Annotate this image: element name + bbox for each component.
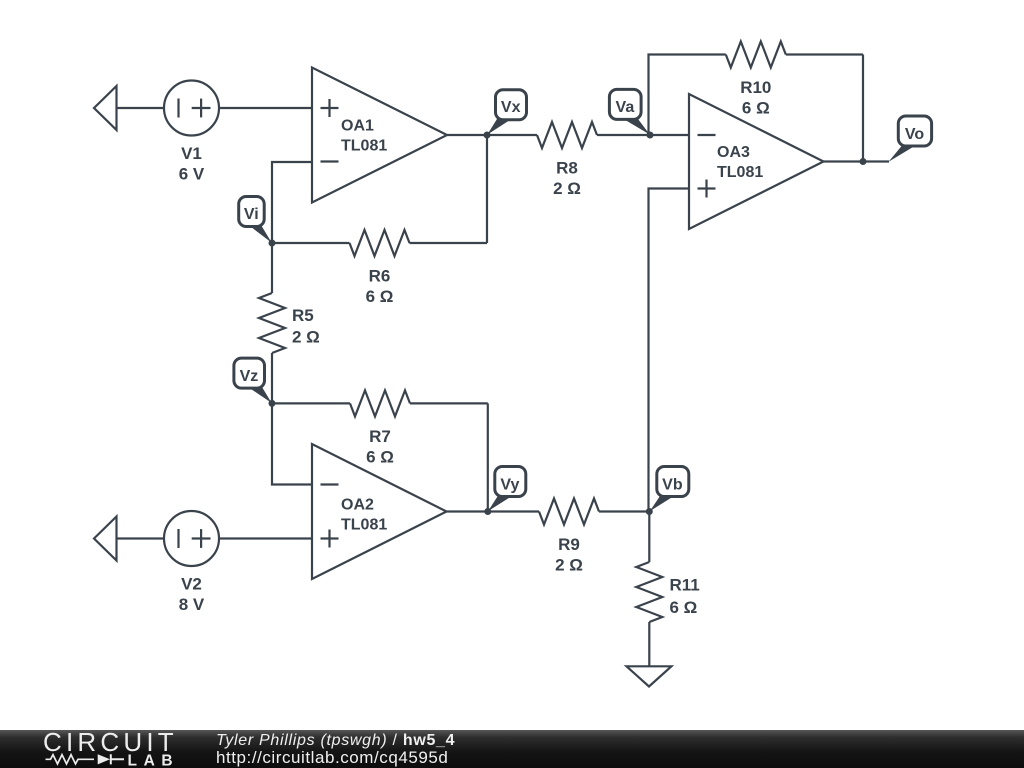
node Vi junction dot — [269, 240, 276, 247]
svg-text:R8: R8 — [556, 159, 578, 178]
node flag Vy — [488, 467, 526, 512]
svg-text:TL081: TL081 — [341, 138, 387, 155]
svg-text:V1: V1 — [181, 144, 202, 163]
footer bar — [0, 730, 1024, 768]
wire OA1 output to R8 — [447, 134, 537, 136]
resistor R8 — [537, 122, 650, 148]
svg-text:2 Ω: 2 Ω — [555, 556, 583, 575]
voltage source V1 — [164, 81, 219, 136]
svg-text:OA2: OA2 — [341, 497, 374, 514]
svg-text:R9: R9 — [558, 535, 580, 554]
OA3 label — [717, 144, 763, 181]
wire OA1 inverting input to node Vi — [272, 162, 312, 243]
svg-text:6 Ω: 6 Ω — [366, 287, 394, 306]
R9 value label — [555, 535, 583, 575]
wire R10 down to OA3 output (feedback right leg) — [862, 55, 864, 162]
svg-text:R6: R6 — [369, 267, 391, 286]
svg-text:Vb: Vb — [662, 476, 683, 493]
logo resistor zigzag — [46, 754, 95, 763]
svg-text:Vi: Vi — [244, 206, 259, 223]
node Vx junction dot — [484, 132, 491, 139]
output junction dot — [860, 158, 867, 165]
svg-text:LAB: LAB — [128, 752, 180, 768]
wire R7 down to node Vy — [487, 403, 489, 511]
R10 value label — [740, 78, 771, 118]
svg-text:Vo: Vo — [905, 126, 924, 143]
svg-text:TL081: TL081 — [341, 517, 387, 534]
svg-text:Va: Va — [616, 99, 635, 116]
svg-text:8 V: 8 V — [179, 595, 205, 614]
node flag Va — [609, 89, 649, 134]
R5 value label — [292, 306, 320, 347]
resistor R7 — [272, 390, 488, 416]
node Vy junction dot — [484, 508, 491, 515]
logo diode — [98, 754, 110, 764]
wire R6 up to node Vx — [486, 135, 488, 243]
resistor R11 — [636, 512, 662, 667]
node Vz junction dot — [269, 400, 276, 407]
svg-text:OA1: OA1 — [341, 118, 374, 135]
ground GND2 (left of V2) — [94, 517, 164, 561]
svg-text:R7: R7 — [369, 427, 391, 446]
wire OA2 output to R9 — [447, 510, 540, 512]
node flag Vx — [487, 90, 526, 135]
resistor R9 — [539, 499, 649, 525]
node flag Vb — [650, 467, 689, 512]
OA2 label — [341, 497, 387, 534]
OA1 label — [341, 118, 387, 155]
wire V2 to OA2 + — [219, 537, 312, 539]
svg-text:2 Ω: 2 Ω — [553, 179, 581, 198]
node Va junction dot — [647, 132, 654, 139]
svg-text:R11: R11 — [670, 576, 700, 595]
ground GND1 (left of V1) — [94, 86, 164, 130]
wire OA3 non-inverting input down to node Vb — [649, 189, 690, 512]
svg-text:http://circuitlab.com/cq4595d: http://circuitlab.com/cq4595d — [216, 747, 448, 766]
svg-text:R5: R5 — [292, 306, 314, 325]
svg-text:V2: V2 — [181, 575, 202, 594]
op-amp OA3 — [689, 94, 824, 229]
op-amp OA2 — [312, 444, 447, 579]
svg-text:OA3: OA3 — [717, 144, 750, 161]
svg-text:R10: R10 — [740, 78, 771, 97]
R11 value label — [670, 576, 700, 618]
voltage source V2 — [164, 511, 219, 566]
node flag Vz — [234, 358, 272, 403]
node flag Vi — [239, 197, 272, 243]
svg-text:Vx: Vx — [501, 99, 521, 116]
svg-text:6 V: 6 V — [179, 165, 205, 184]
op-amp OA1 — [312, 68, 447, 203]
svg-text:Vy: Vy — [500, 476, 519, 493]
wire Va to OA3 inverting input — [650, 134, 689, 136]
svg-text:Tyler Phillips (tpswgh) / hw5_: Tyler Phillips (tpswgh) / hw5_4 — [216, 732, 455, 749]
wire OA2 inverting input to node Vz — [272, 403, 312, 484]
wire OA3 output to Vo stub — [824, 160, 890, 162]
V1 value label — [179, 144, 205, 184]
resistor R10 — [726, 42, 863, 68]
svg-text:2 Ω: 2 Ω — [292, 328, 320, 347]
svg-text:6 Ω: 6 Ω — [742, 99, 770, 118]
svg-text:Vz: Vz — [240, 368, 259, 385]
R8 value label — [553, 159, 581, 199]
node Vb junction dot — [646, 508, 653, 515]
wire Va up to R10 (feedback left leg) — [649, 55, 726, 136]
node flag Vo — [889, 116, 932, 162]
svg-text:6 Ω: 6 Ω — [366, 448, 394, 467]
ground GND3 (below R11) — [627, 666, 672, 686]
resistor R5 — [259, 243, 285, 403]
R6 value label — [366, 267, 394, 307]
svg-text:6 Ω: 6 Ω — [670, 598, 698, 617]
V2 value label — [179, 575, 205, 615]
wire V1 to OA1 + — [219, 107, 312, 109]
R7 value label — [366, 427, 394, 467]
resistor R6 — [272, 230, 487, 256]
svg-text:TL081: TL081 — [717, 164, 763, 181]
